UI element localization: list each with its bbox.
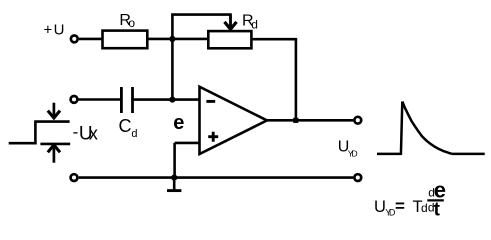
- terminal +U input: [71, 36, 78, 43]
- wire node A down to inverting node: [171, 39, 174, 100]
- output waveform rising edge: [401, 102, 402, 156]
- output waveform baseline right: [452, 153, 485, 156]
- wire feedback vertical down to output: [295, 39, 298, 120]
- wire op-amp output: [265, 119, 354, 122]
- svg-text:YD: YD: [348, 148, 358, 158]
- svg-text:d: d: [251, 17, 258, 31]
- wire Cd to op-amp inverting input: [133, 98, 200, 101]
- capacitor Cd: [120, 87, 123, 113]
- terminal ground right: [354, 174, 361, 181]
- wire +U terminal to R0: [79, 38, 103, 41]
- step symbol lower-left level line: [9, 142, 37, 145]
- step symbol reference segment: [40, 143, 70, 146]
- op-amp plus input sign: [208, 135, 218, 138]
- wire bypass node A to Rd wiper: [172, 15, 230, 39]
- ground symbol: [173, 178, 176, 190]
- wire R0 to Rd left: [147, 38, 208, 41]
- output junction dot: [293, 118, 298, 123]
- resistor Rd: [208, 31, 251, 48]
- svg-text:d: d: [421, 201, 428, 215]
- wire plus input horizontal: [175, 142, 200, 145]
- step amplitude up arrow: [53, 146, 56, 162]
- formula U_YD = Td de/dt: [374, 177, 446, 220]
- svg-text:+U: +U: [44, 21, 65, 38]
- ground rail junction dot: [171, 175, 177, 181]
- svg-text:U: U: [374, 198, 386, 216]
- step symbol top level line: [34, 120, 69, 123]
- node e junction dot: [169, 97, 175, 103]
- svg-text:=: =: [395, 197, 405, 216]
- op-amp minus input sign: [206, 100, 215, 103]
- step amplitude down arrow: [53, 103, 56, 118]
- svg-text:-: -: [73, 122, 79, 141]
- svg-text:x: x: [89, 123, 98, 143]
- terminal ground left: [71, 174, 78, 181]
- wire Rd right to feedback corner: [251, 38, 297, 41]
- resistor R0: [103, 31, 148, 49]
- svg-text:t: t: [434, 200, 441, 221]
- op-amp U1 triangle: [200, 87, 268, 154]
- svg-text:d: d: [131, 128, 137, 140]
- wire plus input down to ground rail: [173, 143, 176, 178]
- svg-text:e: e: [173, 112, 184, 134]
- step symbol rising edge: [34, 122, 37, 145]
- svg-text:C: C: [119, 116, 132, 136]
- terminal output: [354, 117, 361, 124]
- arrowhead onto Rd wiper: [229, 15, 232, 29]
- node A junction dot: [169, 36, 175, 42]
- output waveform baseline left: [377, 153, 401, 156]
- svg-text:o: o: [128, 16, 135, 30]
- svg-text:e: e: [434, 177, 446, 202]
- output waveform exponential decay: [402, 102, 451, 154]
- terminal signal input: [71, 96, 78, 103]
- wire input terminal to Cd: [77, 98, 120, 101]
- ground rail wire: [79, 176, 354, 179]
